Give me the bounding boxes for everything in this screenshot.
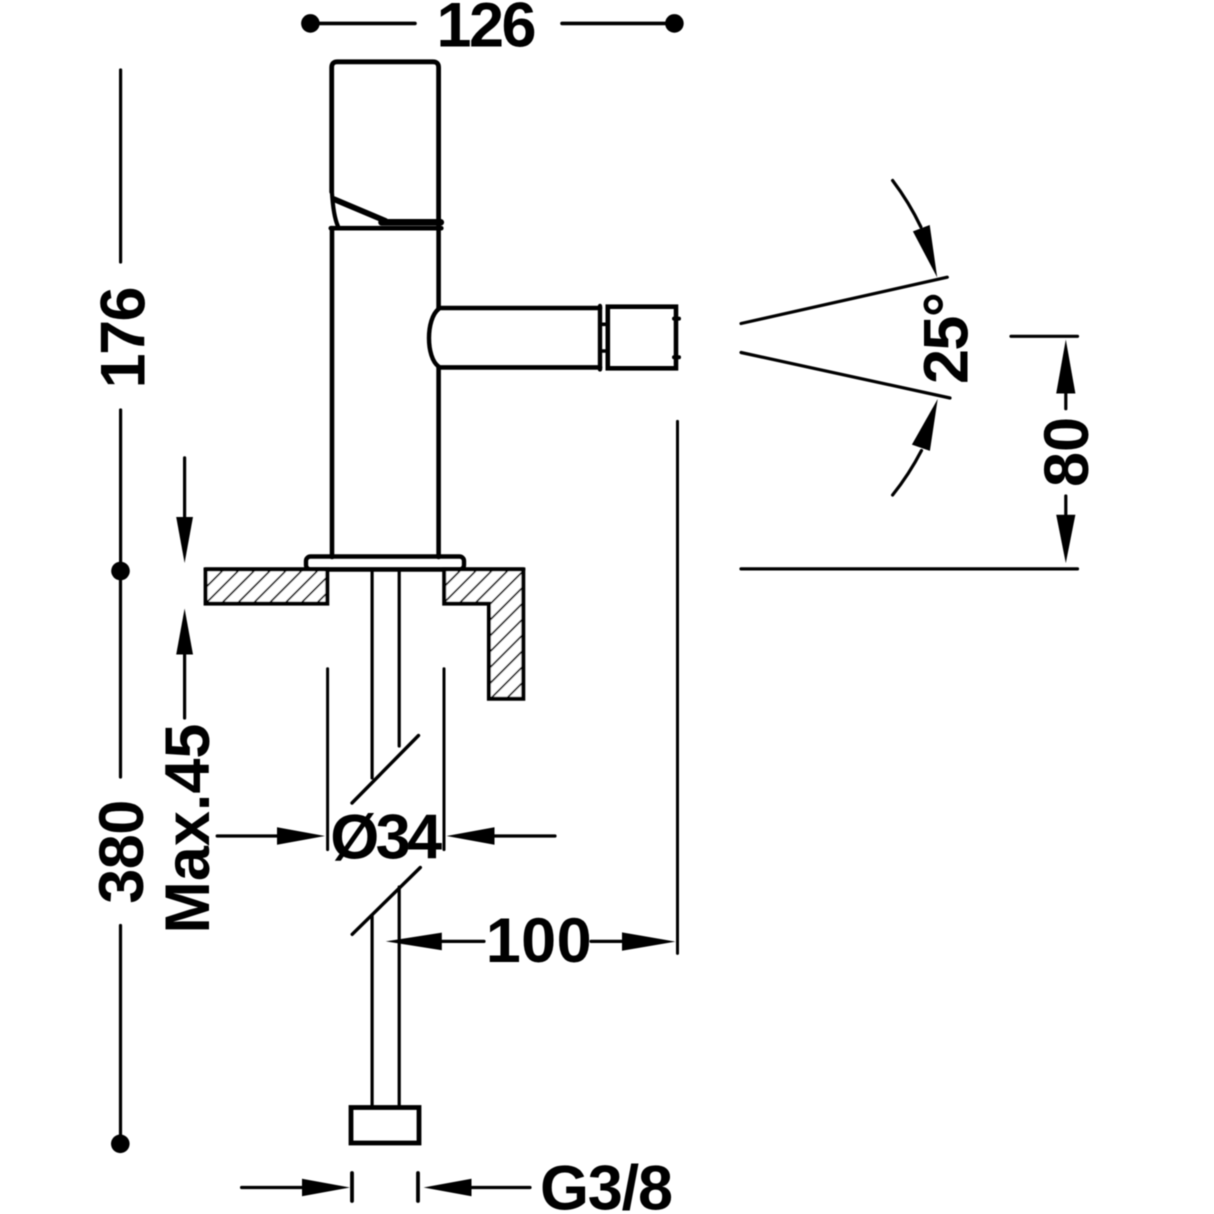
Max.45 down arrowhead xyxy=(176,517,193,563)
aerator xyxy=(608,307,676,369)
dim 380 bottom dot xyxy=(111,1135,130,1154)
dim 176 line upper xyxy=(119,70,122,262)
angle arc lower arrowhead xyxy=(912,399,938,451)
deck left slab xyxy=(206,569,328,603)
angle arc lower xyxy=(893,451,922,496)
break slash lower xyxy=(352,868,420,935)
body right edge upper xyxy=(436,228,441,308)
dim 380 line upper xyxy=(119,580,122,777)
handle bottom band xyxy=(382,219,441,226)
angle line upper xyxy=(741,277,947,323)
dim 126: left dot xyxy=(301,14,320,33)
Max.45 up arrowhead xyxy=(176,609,193,655)
G3/8 left arrowhead xyxy=(302,1179,350,1196)
svg-text:126: 126 xyxy=(437,0,537,60)
dim 80 top tick xyxy=(1011,335,1078,338)
dim 176 line lower xyxy=(119,410,122,562)
dim 100 right arrowhead xyxy=(622,932,676,950)
dim 100 left arrowhead xyxy=(386,933,442,951)
angle line lower xyxy=(741,353,950,399)
dim 380 line lower xyxy=(119,926,122,1135)
body left edge xyxy=(330,228,335,557)
dim 100 left line xyxy=(438,940,484,943)
svg-text:80: 80 xyxy=(1032,417,1102,487)
svg-text:G3/8: G3/8 xyxy=(540,1154,673,1214)
svg-text:176: 176 xyxy=(88,286,158,388)
supply pipe upper left xyxy=(371,570,374,778)
dim 126: right dot xyxy=(665,14,684,33)
base plate xyxy=(306,557,464,570)
supply pipe upper right xyxy=(398,570,401,746)
dim O34 projection left xyxy=(326,669,329,850)
G3/8 tick right xyxy=(416,1173,420,1201)
supply pipe lower left xyxy=(371,916,374,1108)
dim 80 down arrowhead xyxy=(1056,515,1075,563)
svg-text:Ø34: Ø34 xyxy=(330,803,442,873)
angle arc upper arrowhead xyxy=(913,225,937,278)
Max.45 up arrow line xyxy=(183,652,186,718)
connector tab top xyxy=(600,322,608,326)
dim 80 up arrowhead xyxy=(1056,340,1075,394)
dim 126: left line xyxy=(318,22,415,26)
Max.45 down arrow line xyxy=(183,458,186,520)
spout end edge xyxy=(598,306,602,369)
dim 100 right line xyxy=(591,940,634,943)
dim 80 lower line xyxy=(1064,496,1067,516)
svg-text:Max.45: Max.45 xyxy=(153,724,223,934)
angle arc upper xyxy=(893,181,921,228)
deck top line xyxy=(206,567,524,571)
svg-text:100: 100 xyxy=(486,906,592,976)
dim 126: right line xyxy=(562,22,669,26)
dim O34 projection right xyxy=(443,669,446,850)
dim 80 upper line xyxy=(1064,392,1067,409)
svg-text:25°: 25° xyxy=(912,292,982,384)
deck level line right xyxy=(741,567,1078,570)
body right edge lower xyxy=(436,367,441,557)
nut xyxy=(351,1108,419,1144)
spout top edge xyxy=(439,306,600,311)
cartridge ring line xyxy=(331,226,442,231)
spout inner arc xyxy=(429,309,439,367)
supply pipe lower right xyxy=(398,887,401,1108)
dot at deck xyxy=(111,562,130,581)
break slash upper xyxy=(352,736,419,804)
aerator projection line xyxy=(676,421,679,953)
dim O34 right arrowhead xyxy=(447,827,495,844)
deck right piece xyxy=(444,569,523,698)
G3/8 left line xyxy=(242,1186,306,1189)
G3/8 tick left xyxy=(350,1173,354,1201)
dim O34 right arrow line xyxy=(491,834,555,837)
spout bottom edge xyxy=(439,365,600,370)
svg-text:380: 380 xyxy=(87,800,157,904)
connector tab bottom xyxy=(600,349,608,353)
handle bottom-left arc xyxy=(332,192,338,227)
dim O34 left arrow line xyxy=(217,834,280,837)
handle lever diagonal xyxy=(334,199,386,221)
aerator outlet nub bottom xyxy=(674,355,679,359)
G3/8 right line xyxy=(468,1186,530,1189)
G3/8 right arrowhead xyxy=(424,1179,472,1196)
aerator outlet nub top xyxy=(674,317,679,321)
handle outline xyxy=(332,62,439,228)
dim O34 left arrowhead xyxy=(277,827,325,844)
